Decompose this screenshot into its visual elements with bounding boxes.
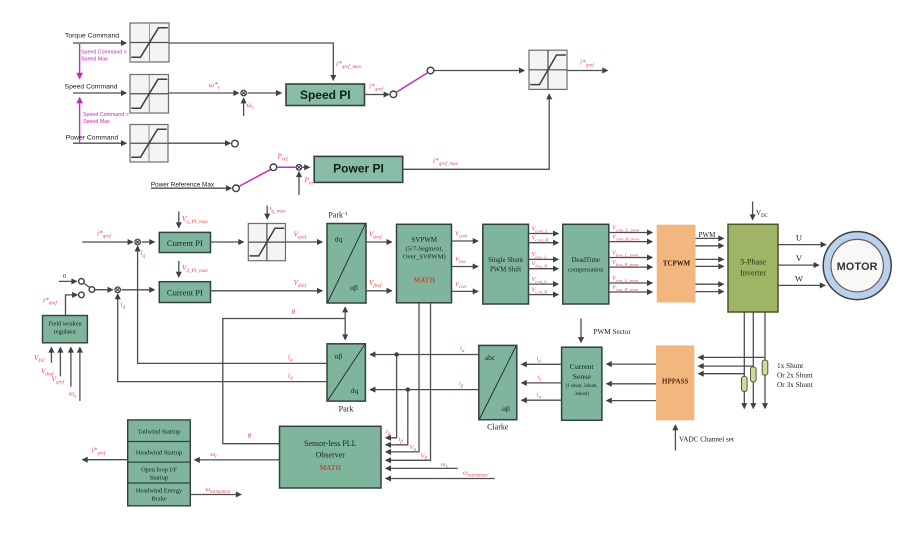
wire HPPASS to current sense 3 (607, 400, 656, 402)
wire below shunt 2 (752, 382, 754, 408)
wire shunt-shift out con_L (529, 283, 559, 285)
block 3-Phase Inverter (728, 224, 778, 312)
svg-text:W: W (795, 273, 803, 283)
wire deadtime out low_R_pwm (609, 266, 652, 268)
switch speed output circle A (390, 91, 397, 98)
svg-text:αβ: αβ (335, 352, 343, 361)
wire below shunt 1 (743, 391, 745, 408)
block Field weaken regulator (43, 316, 88, 343)
wire inverter leg phase W (764, 312, 766, 360)
wire shunt tap V to HPPASS (699, 365, 754, 367)
junction q current sum (135, 239, 141, 245)
wire V_d_PI_max into Current PI d (178, 261, 180, 277)
svg-text:Torque Command: Torque Command (65, 33, 119, 40)
svg-text:θ: θ (292, 308, 296, 316)
wire V_DC into inverter (752, 202, 754, 220)
wire shunt-shift out com_L (529, 233, 559, 235)
svg-text:Field weaken: Field weaken (48, 321, 81, 328)
wire switch to final limiter (434, 70, 524, 72)
switch power common circle (270, 164, 277, 171)
svg-text:Power Command: Power Command (66, 135, 119, 142)
wire tcpwm pwm out 2 (696, 245, 724, 247)
svg-text:(1 shunt, 2shunt,: (1 shunt, 2shunt, (566, 384, 598, 389)
switch d-ref circle bottom (79, 292, 85, 298)
svg-text:Or 2x Shunt: Or 2x Shunt (777, 371, 813, 380)
svg-text:Speed PI: Speed PI (300, 88, 351, 102)
svg-text:3shunt): 3shunt) (574, 392, 589, 397)
wire Power PI output to limiter bottom (403, 94, 550, 169)
svg-text:PWM: PWM (699, 231, 717, 239)
wire Current PI q to iq limiter (211, 241, 244, 243)
svg-text:TCPWM: TCPWM (663, 261, 691, 268)
wire torque limiter output to Speed PI top (169, 43, 333, 80)
svg-text:Brake: Brake (151, 496, 166, 503)
wire field weaken input 2 (59, 347, 61, 376)
wire deadtime out low_L_pwm (609, 257, 652, 259)
resistor shunt 1 (742, 376, 748, 391)
svg-text:Current: Current (570, 362, 595, 371)
svg-text:αβ: αβ (502, 404, 510, 413)
block HPPASS (656, 345, 694, 420)
wire speed command input (73, 92, 126, 94)
wire theta net from observer to Park blocks (223, 319, 345, 444)
wire V_beta_ref to SVPWM (366, 290, 392, 292)
wire Speed PI output (365, 94, 389, 96)
svg-text:Observer: Observer (316, 451, 346, 460)
limiter power command saturation (130, 125, 168, 163)
wire power command input (73, 142, 126, 144)
wire inverter U phase to motor (778, 244, 826, 246)
svg-text:Power PI: Power PI (333, 162, 384, 176)
svg-text:Park: Park (339, 405, 354, 414)
svg-text:Power Reference Max: Power Reference Max (151, 181, 215, 188)
svg-text:Sensor-less PLL: Sensor-less PLL (304, 439, 357, 448)
switch power open circle (232, 140, 239, 147)
wire below shunt 3 (764, 375, 766, 408)
svg-text:MATH: MATH (414, 277, 436, 285)
resistor shunt 3 (762, 360, 768, 375)
svg-text:regulator: regulator (54, 329, 76, 336)
wire theta down into Park (344, 319, 346, 340)
svg-text:PWM Sector: PWM Sector (594, 328, 632, 336)
block SVPWM (397, 224, 452, 302)
wire omega_estimation to observer (386, 478, 495, 480)
junction i_beta tap (406, 387, 410, 391)
block Single Shunt PWM Shift (483, 224, 529, 304)
wire omega_estimation output from stack (190, 494, 241, 496)
wire speed-command-exceeds arrow down (79, 44, 81, 79)
svg-text:Startup: Startup (150, 475, 168, 482)
svg-text:Headwind Energy: Headwind Energy (136, 488, 183, 495)
block Park transform (327, 344, 365, 401)
resistor shunt 2 (751, 367, 757, 382)
wire power switch to power sum (277, 166, 296, 168)
svg-text:Single Shunt: Single Shunt (488, 257, 523, 264)
wire inverter leg phase U (743, 312, 745, 376)
wire current sense i_u to Clarke (522, 363, 562, 365)
wire V_q_PI_max into Current PI q (178, 212, 180, 228)
svg-text:1x Shunt: 1x Shunt (777, 361, 803, 370)
svg-text:DeadTime: DeadTime (571, 257, 599, 264)
junction i_alpha tap (394, 352, 398, 356)
wire speed sum to Speed PI (248, 92, 282, 94)
svg-text:U: U (796, 233, 802, 243)
wire i_q feedback (138, 246, 327, 363)
wire current sense i_v to Clarke (522, 382, 562, 384)
wire tcpwm pwm out 1 (696, 237, 724, 239)
wire current sense i_w to Clarke (522, 399, 562, 401)
svg-text:compensation: compensation (568, 267, 604, 274)
wire power reference max input (151, 187, 231, 189)
wire shunt tap W to HPPASS (699, 356, 766, 358)
wire d sum to Current PI d (122, 289, 155, 291)
wire field weaken input 4 (79, 347, 81, 401)
junction power sum (296, 165, 302, 171)
limiter final q current saturation (529, 50, 567, 89)
svg-text:abc: abc (485, 353, 496, 362)
wire Clarke i_beta to Park (370, 389, 479, 391)
wire power sum to Power PI (303, 166, 310, 168)
switch power lever (239, 169, 271, 186)
wire i_q_max into iq limiter (266, 206, 268, 219)
wire i_beta to observer (386, 390, 408, 445)
svg-text:Over_SVPWM): Over_SVPWM) (403, 254, 446, 261)
svg-text:MOTOR: MOTOR (837, 261, 878, 273)
switch speed output circle B (427, 67, 434, 74)
svg-text:SVPWM: SVPWM (411, 236, 437, 244)
wire inverter leg phase V (752, 312, 754, 367)
wire SVPWM out V_low (452, 266, 478, 268)
wire HPPASS to current sense 1 (607, 363, 656, 365)
svg-text:(5/7-Segment,: (5/7-Segment, (406, 246, 444, 253)
wire q sum to Current PI q (142, 241, 155, 243)
svg-text:Clarke: Clarke (487, 423, 509, 432)
switch d-ref circle top (79, 279, 85, 285)
svg-text:Current PI: Current PI (167, 288, 203, 298)
wire V_alpha_ref to SVPWM (366, 241, 392, 243)
wire i_alpha to observer (386, 355, 397, 438)
svg-text:Headwind Startup: Headwind Startup (136, 450, 182, 457)
svg-text:αβ: αβ (350, 283, 358, 292)
block Current PI d-axis (159, 282, 210, 303)
wire shunt-shift out low_L (529, 258, 559, 260)
svg-text:θ: θ (248, 432, 252, 440)
wire omega_r feedback into speed sum (243, 98, 245, 116)
block Park inverse transform (327, 224, 366, 304)
svg-text:PWM Shift: PWM Shift (490, 267, 521, 274)
wire tcpwm pwm out 6 (696, 291, 724, 293)
wire inverter V phase to motor (778, 264, 819, 266)
wire inverter W phase to motor (778, 284, 825, 286)
wire shunt-shift out low_R (529, 268, 559, 270)
wire i_d feedback (118, 294, 327, 382)
wire field weaken input 3 (70, 347, 72, 386)
svg-text:Inverter: Inverter (740, 268, 766, 277)
wire shunt tap U to HPPASS (699, 373, 745, 375)
wire deadtime out con_L_pwm (609, 282, 652, 284)
switch d-ref common circle (89, 287, 95, 293)
block Power PI (314, 156, 403, 182)
wire final limiter output i*_qref (567, 70, 608, 72)
wire speed-command-exceeds arrow up (79, 98, 81, 143)
wire zero stub (59, 280, 77, 282)
wire V_beta to observer (386, 303, 431, 460)
wire Clarke i_alpha to Park (370, 354, 479, 356)
svg-text:Speed Command >: Speed Command > (83, 112, 129, 118)
junction speed error sum (241, 90, 247, 96)
block Speed PI (286, 84, 365, 106)
wire i*_qref output from stack (83, 459, 128, 461)
svg-text:HPPASS: HPPASS (662, 378, 688, 386)
wire Current PI d to Park inverse (211, 290, 323, 292)
block DeadTime compensation (563, 224, 609, 304)
svg-text:Open loop I/F: Open loop I/F (141, 467, 177, 474)
block startup strategy stack (128, 420, 191, 506)
wire P_in into power sum (298, 172, 300, 195)
limiter speed command saturation (130, 75, 169, 114)
svg-text:dq: dq (335, 235, 343, 244)
wire omega_e to observer (386, 467, 458, 469)
wire V_alpha to observer (386, 303, 419, 452)
wire tcpwm pwm out 4 (696, 265, 724, 267)
svg-text:Tailwind Startup: Tailwind Startup (138, 429, 181, 436)
svg-text:Speed Command >: Speed Command > (81, 50, 127, 56)
wire shunt-shift out com_R (529, 242, 559, 244)
block Sensor-less PLL Observer (280, 426, 382, 488)
wire SVPWM out V_com (452, 240, 478, 242)
junction d current sum (115, 287, 121, 293)
svg-text:3-Phase: 3-Phase (740, 257, 766, 266)
switch speed lever (396, 73, 427, 93)
svg-text:dq: dq (351, 386, 359, 395)
svg-text:Speed Command: Speed Command (65, 84, 118, 91)
svg-text:Sense: Sense (573, 372, 592, 381)
svg-text:Current PI: Current PI (167, 238, 203, 248)
wire iq limiter to Park inverse dq (286, 241, 323, 243)
svg-text:Speed Max: Speed Max (83, 119, 110, 125)
switch power reference circle (233, 185, 240, 192)
svg-text:Speed Max: Speed Max (81, 57, 108, 63)
block Current Sense (562, 347, 602, 420)
block Current PI q-axis (159, 232, 210, 252)
wire deadtime out com_R_pwm (609, 241, 652, 243)
wire power limiter output (168, 142, 230, 144)
wire VADC channel set into HPPASS (674, 425, 676, 451)
svg-text:0: 0 (63, 273, 66, 280)
motor M1 (823, 232, 891, 300)
wire i*_dref from field weaken regulator (66, 295, 78, 315)
svg-text:Or 3x Shunt: Or 3x Shunt (777, 380, 813, 389)
wire torque command input (73, 42, 126, 44)
wire i*_qref into q sum (82, 241, 133, 243)
block TCPWM (657, 225, 696, 303)
wire deadtime out con_R_pwm (609, 291, 652, 293)
wire theta up into Park inverse (344, 307, 346, 318)
wire PWM Sector into current sense (580, 319, 582, 343)
wire d switch to d sum (95, 289, 113, 291)
wire omega_r observer to startup stack (195, 459, 280, 461)
wire deadtime out com_L_pwm (609, 232, 652, 234)
svg-text:V: V (796, 253, 803, 263)
limiter torque command saturation (130, 23, 169, 62)
limiter iq saturation (248, 224, 285, 261)
svg-text:VADC Channel set: VADC Channel set (679, 436, 734, 444)
wire speed limiter output to speed sum (169, 92, 239, 94)
wire tcpwm pwm out 3 (696, 258, 724, 260)
svg-text:MATH: MATH (320, 464, 342, 472)
wire HPPASS to current sense 2 (607, 383, 656, 385)
wire field weaken input 1 (50, 347, 52, 362)
block Clarke transform (479, 345, 517, 419)
switch d-ref lever (84, 283, 90, 287)
wire tcpwm pwm out 5 (696, 283, 724, 285)
wire SVPWM out V_con (452, 290, 478, 292)
wire shunt-shift out con_R (529, 294, 559, 296)
